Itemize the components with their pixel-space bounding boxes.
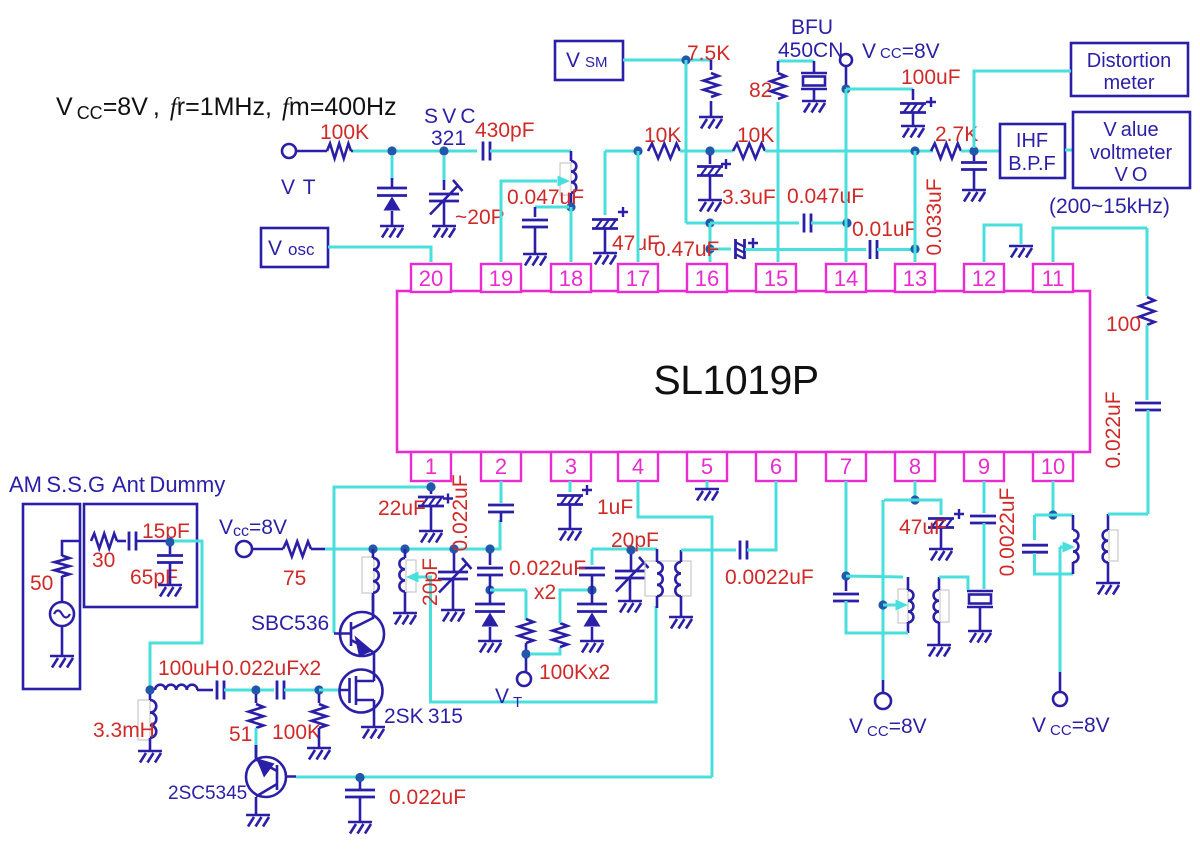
- wire 0.022uF down to coil: [1147, 410, 1150, 514]
- svg-text:0.022uF: 0.022uF: [449, 474, 472, 551]
- wire between 10K resistors: [680, 150, 733, 153]
- svg-text:22uF: 22uF: [378, 497, 426, 520]
- ground output cap: [348, 822, 372, 834]
- svg-text:15: 15: [764, 266, 788, 291]
- wire trimmer1 lead: [453, 553, 456, 572]
- capacitor 0.47uF: [736, 238, 759, 259]
- svg-text:19: 19: [489, 266, 513, 291]
- wire pin8 node: [884, 500, 941, 515]
- transistor 2SC5345: [246, 745, 296, 815]
- trimmer 20pF tank: [615, 557, 649, 592]
- inductor pin9 coil: [940, 590, 949, 622]
- svg-text:1: 1: [425, 454, 437, 479]
- ground output coil: [1096, 583, 1120, 595]
- svg-text:Distortion: Distortion: [1087, 50, 1171, 72]
- wire 100K-1 top lead: [525, 590, 528, 620]
- wire 0.047uF series right: [811, 222, 847, 225]
- junction pin10: [1048, 510, 1057, 519]
- svg-text:0.033uF: 0.033uF: [923, 178, 946, 255]
- wire pin5 lead: [706, 481, 709, 489]
- wire varactor to ground: [391, 211, 394, 226]
- wire 100uF to ground: [912, 113, 915, 126]
- ground crystal: [802, 101, 826, 113]
- svg-text:321: 321: [431, 127, 466, 150]
- ground 0.033uF: [962, 190, 986, 202]
- wire 100K-1 bottom lead: [525, 643, 528, 650]
- wire node to cap2: [260, 689, 274, 692]
- wire 100K top lead: [318, 694, 321, 703]
- transistor SBC536: [334, 595, 384, 670]
- junction 3.3mH node: [145, 685, 154, 694]
- wire feedback loop: [418, 577, 656, 702]
- wire VCC to 75R: [252, 548, 283, 551]
- wire ant dummy to 3.3mH node: [150, 541, 202, 688]
- resistor 100K tune 1: [519, 619, 534, 643]
- wire 47uF lead: [604, 151, 607, 215]
- varactor diode D1: [377, 188, 407, 211]
- wire 65pF lead: [169, 546, 172, 554]
- ground trimmer: [432, 226, 456, 238]
- svg-text:13: 13: [903, 266, 927, 291]
- wire 51R top lead: [255, 694, 258, 703]
- svg-text:SBC536: SBC536: [251, 612, 329, 635]
- junction pin17 node: [633, 146, 642, 155]
- capacitor 0.022uF branch1: [477, 568, 503, 575]
- svg-text:2.7K: 2.7K: [935, 123, 978, 146]
- wire 0.047uF to ground: [534, 227, 537, 254]
- resistor 100K tune 2: [553, 623, 568, 647]
- wire 100uH to cap: [197, 689, 213, 692]
- svg-text:VCC=8V: VCC=8V: [1032, 714, 1110, 739]
- svg-text:VCC=8V: VCC=8V: [862, 40, 940, 63]
- wire 100uF lead: [912, 89, 915, 100]
- svg-text:V alue: V alue: [1103, 119, 1158, 141]
- resistor 82: [771, 73, 786, 99]
- wire 1uF to ground: [569, 505, 572, 529]
- wire VCC vertical mid: [882, 500, 885, 680]
- svg-text:10K: 10K: [737, 124, 774, 147]
- capacitor 47uF pin17: [592, 207, 628, 229]
- resistor 51: [249, 704, 264, 728]
- wire pin13: [914, 151, 917, 262]
- wire 100K-2 to branch2: [560, 590, 588, 623]
- wire IHF to voltmeter: [1065, 149, 1073, 152]
- wire 0.047uF series left: [710, 222, 799, 225]
- junction rail coil2a: [400, 544, 409, 553]
- junction IHF node: [969, 146, 978, 155]
- wire pin9 coil to resonator: [939, 577, 968, 590]
- terminal VCC left: [236, 541, 252, 557]
- junction pin18 node: [566, 202, 575, 211]
- ground pin9 coil: [927, 645, 951, 657]
- wire 47uF to ground: [604, 229, 607, 253]
- terminal VT: [282, 144, 296, 158]
- inductor detector coil pin18: [560, 163, 571, 195]
- ground branch1: [478, 641, 502, 653]
- svg-text:SL1019P: SL1019P: [653, 357, 818, 403]
- svg-text:B.P.F: B.P.F: [1008, 153, 1055, 175]
- wire 0.01uF to pin13: [877, 248, 915, 251]
- junction VSM node: [681, 55, 690, 64]
- pin 11 box: [1033, 264, 1073, 292]
- ground L2a: [393, 613, 417, 625]
- capacitor 430pF: [483, 142, 490, 161]
- wire crystal to ground: [813, 89, 816, 101]
- wire to FET gate: [319, 689, 340, 692]
- capacitor 22uF pin1: [418, 494, 453, 507]
- pin 3 box: [551, 452, 591, 481]
- junction pin14 mid: [842, 218, 851, 227]
- capacitor 0.022uF right: [1135, 403, 1161, 410]
- wire branch2 to ground: [591, 627, 594, 641]
- trimmer 20pF left: [438, 558, 472, 593]
- terminal VCC right: [1053, 692, 1067, 706]
- svg-text:VCC=8V: VCC=8V: [849, 715, 927, 740]
- wire tank coil1 top lead: [656, 549, 659, 562]
- svg-text:8: 8: [909, 454, 921, 479]
- pin 19 box: [481, 264, 521, 292]
- terminal VCC mid: [875, 693, 891, 709]
- wire VSM node: [623, 59, 711, 62]
- wire to pin16 junction: [686, 222, 710, 225]
- wire pin4 loop: [638, 481, 712, 777]
- ground 47uF: [593, 253, 617, 265]
- wire trimmer2 lead: [630, 554, 633, 571]
- pin 10 box: [1033, 452, 1073, 481]
- varactor branch2: [577, 604, 607, 627]
- box Value voltmeter: [1073, 112, 1190, 188]
- capacitor 0.0022uF pin10: [1022, 545, 1048, 552]
- svg-text:0.01uF: 0.01uF: [852, 218, 917, 241]
- junction 51R node: [251, 685, 260, 694]
- wire VCC to pin14: [845, 89, 848, 262]
- wire 2SC base line to pin4 loop: [296, 776, 712, 779]
- pin 13 box: [895, 264, 935, 292]
- svg-text:~20P: ~20P: [455, 206, 505, 229]
- wire 2SC collector lead: [255, 745, 258, 758]
- svg-text:2SK 315: 2SK 315: [384, 705, 463, 728]
- wire 0.0022uF to pin6: [747, 481, 776, 550]
- ground source: [50, 656, 74, 668]
- wire VCC rail: [325, 520, 500, 549]
- svg-text:9: 9: [978, 454, 990, 479]
- svg-text:100Kx2: 100Kx2: [539, 661, 610, 684]
- wire pin2 cap lower lead: [500, 512, 503, 522]
- transistor 2SK315: [340, 670, 383, 728]
- pin 2 box: [481, 452, 521, 481]
- ground varactor: [380, 226, 404, 238]
- wire 0.47uF left: [710, 248, 731, 251]
- pin 5 box: [687, 452, 727, 481]
- junction 100K gate node: [314, 685, 323, 694]
- wire pin11 to 100R: [1146, 228, 1149, 296]
- svg-text:BFU: BFU: [791, 16, 833, 39]
- tuning arrow pin7 coil: [896, 600, 909, 611]
- resistor 7.5K: [704, 73, 719, 97]
- wire crystal top lead: [813, 61, 816, 74]
- svg-text:100K: 100K: [320, 121, 369, 144]
- wire pin7: [845, 481, 848, 572]
- pin 4 box: [618, 452, 658, 481]
- ground tank secondary: [669, 617, 693, 629]
- wire pin9 to resonator: [983, 523, 986, 589]
- junction pin16 lower: [705, 244, 714, 253]
- ground 100K bias: [307, 748, 331, 760]
- inductor collector coil L1a: [362, 557, 374, 593]
- junction pin1: [426, 482, 435, 491]
- pin 14 box: [826, 264, 866, 292]
- svg-text:S V C: S V C: [424, 105, 476, 128]
- wire 15pF to node: [136, 540, 170, 543]
- junction rail branch1: [485, 544, 494, 553]
- svg-text:12: 12: [972, 266, 996, 291]
- svg-text:75: 75: [283, 567, 306, 590]
- svg-text:IHF: IHF: [1016, 130, 1048, 152]
- wire pin17 node top: [605, 150, 638, 153]
- wire 51R to 2SC collector: [255, 728, 258, 757]
- ground branch2: [580, 641, 604, 653]
- resistor 100K input: [327, 144, 351, 159]
- wire pin1 to SBC536 base: [334, 487, 431, 633]
- capacitor 1uF pin3: [557, 485, 592, 505]
- ground trimmer2: [618, 601, 642, 613]
- wire VSM to pin16 node: [685, 60, 688, 223]
- inductor output coupling coil: [1109, 530, 1118, 561]
- svg-text:0.0022uF: 0.0022uF: [725, 566, 814, 589]
- resistor 2.7K: [931, 144, 961, 159]
- wire pin7 tank bottom rail: [846, 601, 908, 633]
- wire pin3 lead: [569, 481, 572, 492]
- wire pin10: [1052, 481, 1055, 511]
- box V SM: [555, 41, 623, 80]
- svg-text:0.47uF: 0.47uF: [654, 238, 719, 261]
- wire 100K to ground: [318, 728, 321, 748]
- pin 18 box: [551, 264, 591, 292]
- wire 10K to 2.7K: [765, 150, 933, 153]
- wire 30R to 15pF: [117, 540, 126, 543]
- wire 3.3uF to ground: [709, 176, 712, 200]
- ceramic resonator pin9: [967, 591, 993, 607]
- svg-text:100uF: 100uF: [901, 66, 961, 89]
- ground 2SC5345: [246, 815, 270, 827]
- svg-text:10K: 10K: [644, 124, 681, 147]
- wire pin11: [1053, 228, 1147, 262]
- capacitor pin9 series: [970, 516, 996, 523]
- pin 8 box: [895, 452, 935, 481]
- capacitor 15pF: [129, 532, 136, 551]
- varactor branch1: [475, 604, 505, 627]
- svg-text:Ant Dummy: Ant Dummy: [112, 472, 225, 497]
- wire 2.7K to IHF: [961, 150, 1000, 153]
- ceramic filter BFU450CN: [801, 73, 827, 89]
- wire pin1 lead: [430, 481, 433, 487]
- junction ant dummy node: [165, 537, 174, 546]
- capacitor 3.3uF: [697, 159, 731, 176]
- svg-text:100: 100: [1106, 313, 1141, 336]
- capacitor 0.022uF coupling 1: [217, 681, 224, 700]
- wire branch1 to 100K-1: [490, 589, 526, 592]
- AC source circle: [50, 602, 74, 626]
- wire 47uF pin8 to ground: [940, 528, 943, 549]
- box AM SSG generator: [23, 504, 80, 689]
- svg-text:meter: meter: [1103, 72, 1154, 94]
- wire VCC to 100uF: [846, 88, 913, 91]
- terminal VCC top: [840, 54, 852, 66]
- wire 7.5K to ground: [710, 101, 713, 117]
- wire VCC right riser: [1059, 547, 1062, 672]
- wire pin10 tank bottom: [1035, 553, 1074, 574]
- svg-text:6: 6: [770, 454, 782, 479]
- box IHF BPF: [1000, 124, 1065, 178]
- capacitor 0.022uF output: [345, 790, 375, 797]
- svg-text:0.022uFx2: 0.022uFx2: [222, 657, 321, 680]
- wire branch1 top lead: [489, 553, 492, 565]
- svg-text:50: 50: [30, 572, 53, 595]
- resistor 50: [55, 556, 70, 577]
- svg-text:x2: x2: [534, 581, 556, 604]
- inductor 100uH: [155, 685, 197, 690]
- inductor tank secondary: [675, 562, 681, 596]
- inductor pin10 tank coil: [1072, 515, 1075, 530]
- svg-text:18: 18: [559, 266, 583, 291]
- wire 0.033uF to ground: [973, 170, 976, 190]
- junction branch2 mid: [587, 585, 596, 594]
- box Ant Dummy: [84, 504, 197, 607]
- svg-text:20pF: 20pF: [611, 529, 659, 552]
- svg-text:100K: 100K: [272, 721, 321, 744]
- pin 12 box: [964, 264, 1004, 292]
- wire 0.047uF branch: [535, 206, 569, 209]
- wire branch2 mid lead: [591, 575, 594, 604]
- wire cap1 to node: [224, 689, 252, 692]
- pin 6 box: [756, 452, 796, 481]
- wire VT lead: [525, 658, 528, 672]
- wire 22uF lead: [430, 491, 433, 494]
- inductor pin7 tank coil: [898, 589, 908, 623]
- svg-text:0.047uF: 0.047uF: [507, 186, 584, 209]
- wire 82 to pin15: [777, 102, 780, 262]
- junction pin16 upper: [705, 218, 714, 227]
- pin 16 box: [687, 264, 727, 292]
- box Distortion meter: [1071, 43, 1188, 96]
- svg-text:voltmeter: voltmeter: [1090, 142, 1173, 164]
- svg-text:4: 4: [632, 454, 644, 479]
- svg-text:1uF: 1uF: [597, 496, 633, 519]
- junction VCC node: [841, 84, 850, 93]
- wire 50 to source: [61, 576, 64, 602]
- junction VCC arrow: [878, 600, 887, 609]
- svg-text:16: 16: [695, 266, 719, 291]
- junction rail coil1a: [368, 544, 377, 553]
- pin 17 box: [618, 264, 658, 292]
- svg-text:AM S.S.G: AM S.S.G: [9, 472, 105, 497]
- capacitor 47uF pin8: [928, 509, 964, 528]
- svg-text:Vosc: Vosc: [268, 237, 315, 260]
- wire tank coil2 bottom lead: [680, 596, 683, 617]
- svg-text:14: 14: [834, 266, 858, 291]
- wire VCC terminal lead: [845, 66, 848, 89]
- wire tank coil1 bottom lead: [656, 596, 659, 608]
- svg-text:20pF: 20pF: [419, 558, 442, 606]
- pin 9 box: [964, 452, 1004, 481]
- svg-text:VCC=8V , fr=1MHz, fm=400Hz: VCC=8V , fr=1MHz, fm=400Hz: [56, 93, 397, 123]
- pin 20 box: [411, 264, 451, 292]
- svg-text:0.0022uF: 0.0022uF: [996, 488, 1019, 577]
- transformer pin4 tank: [645, 561, 691, 596]
- wire branch1 to ground: [489, 627, 492, 641]
- svg-text:V O: V O: [1115, 164, 1148, 186]
- wire 0.033uF lead: [973, 155, 976, 161]
- wire source to ground: [61, 626, 64, 656]
- svg-text:11: 11: [1042, 266, 1065, 291]
- trimmer capacitor SVC321 ~20P: [429, 180, 463, 215]
- svg-text:7.5K: 7.5K: [687, 42, 730, 65]
- junction trimmer node: [439, 146, 448, 155]
- junction pin8: [910, 495, 919, 504]
- svg-text:430pF: 430pF: [475, 119, 535, 142]
- svg-text:2: 2: [495, 454, 507, 479]
- wire 82 top lead: [777, 61, 780, 72]
- resistor 100: [1140, 297, 1155, 325]
- tuning arrow L2a: [406, 572, 419, 583]
- wire pin16: [709, 223, 712, 262]
- svg-text:(200~15kHz): (200~15kHz): [1049, 195, 1170, 218]
- capacitor 0.033uF: [961, 163, 987, 170]
- ground 3.3mH: [138, 751, 162, 763]
- wire VCC right terminal lead: [1059, 672, 1062, 692]
- inductor tank primary: [657, 562, 663, 596]
- wire 22uF to ground: [430, 506, 433, 531]
- junction varactor node: [387, 146, 396, 155]
- pin 15 box: [756, 264, 796, 292]
- wire trimmer2 to ground: [629, 579, 632, 601]
- terminal VT bottom: [517, 672, 531, 686]
- ground pin5: [695, 489, 719, 501]
- ground 3.3uF: [698, 200, 722, 212]
- wire pin19 to arrow: [501, 181, 557, 262]
- wire pin7 tank top rail: [846, 576, 903, 577]
- resistor 10K first: [648, 144, 680, 159]
- wire pin10 cap branch: [1033, 515, 1036, 540]
- wire branch1 mid lead: [489, 575, 492, 604]
- pin 7 box: [826, 452, 866, 481]
- tuning arrow pin10 coil: [1063, 542, 1076, 553]
- wire pin10 arrow lead: [1060, 546, 1063, 549]
- pin 1 box: [411, 452, 451, 481]
- ground 1uF: [558, 529, 582, 541]
- junction 0.022uF output node: [355, 773, 364, 782]
- ground pin12: [1009, 246, 1033, 258]
- capacitor 0.022uF coupling 2: [277, 681, 284, 700]
- wire 75R lead: [311, 548, 325, 551]
- junction 3.3uF node: [705, 146, 714, 155]
- svg-text:3.3uF: 3.3uF: [722, 186, 776, 209]
- wire VOSC to pin20: [328, 247, 431, 262]
- svg-text:82: 82: [749, 79, 772, 102]
- ground trimmer1: [441, 610, 465, 622]
- inductor osc coil L2a: [406, 560, 416, 592]
- wire tank coil2 top lead: [680, 550, 683, 562]
- svg-text:30: 30: [92, 549, 115, 572]
- wire pin18: [570, 207, 573, 262]
- svg-text:3: 3: [565, 454, 577, 479]
- wire branch2 top lead: [591, 549, 594, 565]
- wire 100R to 0.022uF: [1146, 325, 1149, 400]
- wire 3.3uF lead: [709, 155, 712, 164]
- ground resonator: [968, 631, 992, 643]
- svg-text:7: 7: [840, 454, 852, 479]
- svg-text:100uH: 100uH: [158, 657, 220, 680]
